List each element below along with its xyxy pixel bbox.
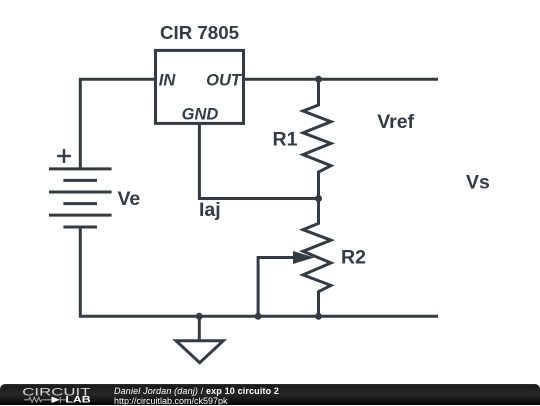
svg-text:Ve: Ve — [118, 188, 141, 210]
node: OUT/R1 junction — [315, 76, 322, 83]
battery Ve plates — [49, 169, 112, 227]
svg-text:R2: R2 — [341, 246, 366, 268]
node: ground tap — [196, 313, 203, 320]
svg-text:LAB: LAB — [65, 395, 91, 405]
wiper arrowhead — [293, 251, 314, 264]
node: R1/R2/GND-pin junction — [315, 195, 322, 202]
svg-text:OUT: OUT — [206, 72, 243, 90]
ground symbol triangle — [176, 341, 223, 363]
svg-text:GND: GND — [182, 106, 219, 124]
battery plus sign — [57, 149, 71, 163]
svg-text:Iaj: Iaj — [199, 199, 221, 221]
footer credit text — [114, 387, 279, 406]
wire: ground stub — [198, 316, 201, 340]
wire: wiper arm of R2 — [258, 258, 296, 317]
CircuitLab logo — [5, 384, 115, 405]
resistor R2 (potentiometer body) — [303, 199, 331, 317]
svg-text:Vs: Vs — [466, 172, 490, 194]
wire: GND pin down and right to node — [199, 124, 318, 199]
node: R2 bottom to rail — [315, 313, 322, 320]
node: wiper to rail — [255, 313, 262, 320]
wire: battery bottom to ground rail — [80, 227, 438, 316]
footer bar — [0, 384, 540, 405]
svg-text:IN: IN — [159, 72, 177, 90]
wire: OUT to right terminal — [244, 78, 438, 81]
resistor R1 — [303, 79, 331, 198]
svg-text:CIR 7805: CIR 7805 — [160, 23, 239, 43]
svg-text:Vref: Vref — [377, 111, 414, 133]
wire: battery top to regulator IN — [80, 79, 155, 169]
svg-text:R1: R1 — [273, 129, 298, 151]
voltage regulator U1 CIR 7805 box — [156, 50, 244, 123]
